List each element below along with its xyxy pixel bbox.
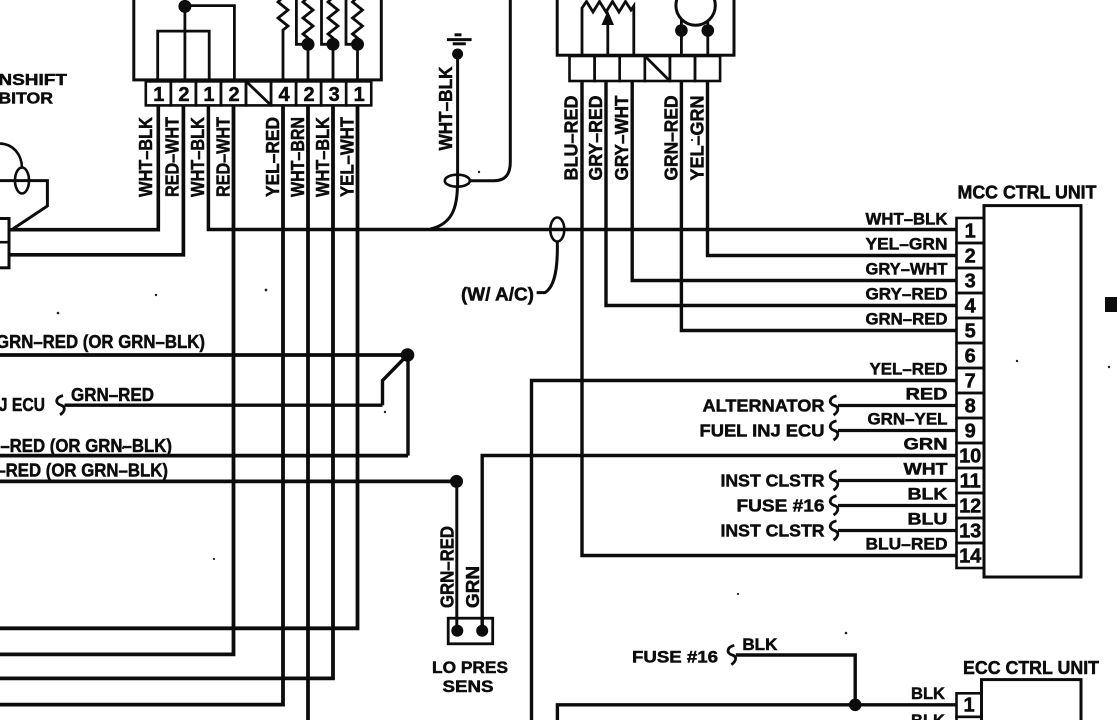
ground symbol xyxy=(447,35,472,44)
svg-text:BLK: BLK xyxy=(911,684,946,703)
svg-text:INST CLSTR: INST CLSTR xyxy=(721,471,825,491)
wire RED-WHT down-left to off-page xyxy=(0,105,234,654)
resistor R1 xyxy=(278,0,288,81)
svg-text:FUSE #16: FUSE #16 xyxy=(632,648,718,667)
MCC box xyxy=(984,206,1081,577)
svg-text:GRY–RED: GRY–RED xyxy=(586,96,606,181)
svg-text:INHIBITOR: INHIBITOR xyxy=(0,91,53,108)
svg-text:INST CLSTR: INST CLSTR xyxy=(721,521,825,541)
wire ground down xyxy=(456,54,459,186)
scan noise specks xyxy=(57,139,1111,634)
svg-text:GRN–RED: GRN–RED xyxy=(438,526,458,608)
page marker square xyxy=(1105,297,1117,312)
svg-text:3: 3 xyxy=(329,84,340,106)
svg-text:2: 2 xyxy=(965,245,976,267)
svg-text:2: 2 xyxy=(304,84,315,106)
svg-text:GRN: GRN xyxy=(463,566,483,608)
wire BLK to pin 12 xyxy=(838,504,957,507)
svg-text:2: 2 xyxy=(178,84,189,106)
svg-text:GRN–RED: GRN–RED xyxy=(661,96,681,181)
break symbol FUSE 16 xyxy=(830,496,838,515)
potentiometer wiper arrow xyxy=(602,11,615,26)
MCC pin boxes xyxy=(957,218,985,568)
svg-text:11: 11 xyxy=(960,470,981,492)
terminal dot left xyxy=(675,24,688,37)
keying diagonal in J1 cell 5 xyxy=(247,82,270,105)
wire from left edge through oval, down, diagonal into box xyxy=(0,181,47,229)
svg-text:WHT–BRN: WHT–BRN xyxy=(288,117,308,197)
wire GRN-RED (OR GRN-BLK) 3 xyxy=(0,454,408,458)
wire GRN-RED to MCC pin 5 xyxy=(681,81,956,331)
break symbol FUSE 16 bottom xyxy=(728,645,736,664)
wire BLU-RED down to MCC pin 14 xyxy=(582,81,957,556)
svg-text:1: 1 xyxy=(963,695,974,717)
svg-text:GRN–RED: GRN–RED xyxy=(71,385,154,405)
svg-text:1: 1 xyxy=(354,84,365,106)
svg-text:10: 10 xyxy=(959,445,981,467)
connector oval bullet xyxy=(15,168,29,194)
svg-text:RED–WHT: RED–WHT xyxy=(163,117,183,197)
wire diagonal branch to GRN-RED xyxy=(383,358,406,406)
ground dot xyxy=(452,49,463,60)
svg-text:YEL–RED: YEL–RED xyxy=(263,117,283,197)
wire BLK from off-page bottom to ECC pin 1 xyxy=(557,705,956,720)
connector J2 cells xyxy=(570,56,721,81)
resistor R2 xyxy=(303,0,313,81)
svg-text:12: 12 xyxy=(959,495,981,517)
svg-text:MCC CTRL UNIT: MCC CTRL UNIT xyxy=(958,183,1097,203)
svg-text:FUEL INJ ECU: FUEL INJ ECU xyxy=(700,421,825,441)
node junction dot R3 xyxy=(327,38,340,51)
node A junction dot inside U-left xyxy=(178,0,191,13)
svg-text:GRY–WHT: GRY–WHT xyxy=(866,260,949,279)
svg-text:GRN–RED: GRN–RED xyxy=(866,310,948,329)
svg-text:3: 3 xyxy=(965,270,976,292)
svg-text:14: 14 xyxy=(959,545,982,567)
wires terminals to connector xyxy=(681,31,707,57)
svg-text:BLK: BLK xyxy=(742,635,778,654)
svg-text:BLU–RED: BLU–RED xyxy=(866,535,948,554)
wire RED to pin 8 xyxy=(838,404,957,407)
svg-text:WHT–BLK: WHT–BLK xyxy=(866,210,949,229)
keying diagonal in J2 cell 4 xyxy=(646,57,670,80)
node junction dot at LO PRES branch xyxy=(450,475,463,488)
svg-text:YEL–GRN: YEL–GRN xyxy=(866,235,948,254)
terminal dot right xyxy=(476,625,488,637)
svg-text:1: 1 xyxy=(203,84,214,106)
component box U-left xyxy=(134,0,381,80)
svg-text:GRN–RED (OR GRN–BLK): GRN–RED (OR GRN–BLK) xyxy=(0,332,205,352)
svg-text:GRN–YEL: GRN–YEL xyxy=(868,410,948,429)
wire staple linking pin 1 and pin 1 xyxy=(158,31,210,81)
wire GRY-RED to MCC pin 4 xyxy=(606,81,957,306)
wire GRN sensor to MCC pin 10 xyxy=(482,456,956,631)
wire vertical from junction down xyxy=(406,355,409,456)
node junction dot R2 xyxy=(302,38,315,51)
wire BLU to pin 13 xyxy=(838,529,957,532)
svg-text:8: 8 xyxy=(965,395,976,417)
svg-text:LO PRES: LO PRES xyxy=(432,659,508,677)
wire YEL-WHT down-left to off-page xyxy=(0,105,358,628)
svg-text:4: 4 xyxy=(279,84,291,106)
terminal dot left xyxy=(451,625,463,637)
svg-text:WHT–BLK: WHT–BLK xyxy=(136,117,156,197)
node junction dot xyxy=(849,699,862,712)
connector oval on ground wire xyxy=(445,175,470,187)
node junction dot xyxy=(401,348,415,362)
wire BLK from FUSE 16 xyxy=(736,655,855,705)
svg-text:7: 7 xyxy=(965,370,976,392)
svg-text:GRY–RED: GRY–RED xyxy=(866,285,948,304)
svg-text:ECC CTRL UNIT: ECC CTRL UNIT xyxy=(963,658,1099,678)
wire W/AC branch curl xyxy=(537,242,558,293)
svg-text:WHT–BLK: WHT–BLK xyxy=(436,67,456,151)
ECC pin 1 box xyxy=(957,693,982,717)
wire WHT-BLK pin1 to left component xyxy=(9,105,158,229)
wire RED-WHT pin2 to left component xyxy=(9,105,183,254)
break symbol FUEL INJ ECU xyxy=(57,396,65,415)
MCC pin numbers xyxy=(959,220,982,567)
svg-text:BLU: BLU xyxy=(908,510,948,529)
ECC pin 2 box (cut) xyxy=(957,717,982,720)
wire WHT-BRN down to off-page bottom xyxy=(306,105,310,720)
break symbol INST CLSTR xyxy=(830,471,838,490)
wire node A right then down to pin 2 (4th cell) xyxy=(185,6,235,81)
wire GRN-RED down to sensor xyxy=(455,481,458,630)
svg-text:BLU–RED: BLU–RED xyxy=(562,96,582,181)
svg-text:GRN–RED (OR GRN–BLK): GRN–RED (OR GRN–BLK) xyxy=(0,436,172,456)
break symbol ALTERNATOR xyxy=(830,396,838,415)
svg-text:FUSE #16: FUSE #16 xyxy=(737,496,825,516)
wire name labels at MCC xyxy=(866,210,949,554)
svg-text:1: 1 xyxy=(153,84,164,106)
svg-text:9: 9 xyxy=(965,420,976,442)
wire node A down to pin 2 xyxy=(183,5,186,81)
svg-text:(W/ A/C): (W/ A/C) xyxy=(461,284,534,305)
break symbol FUEL INJ ECU xyxy=(830,421,838,440)
connector oval on long wire xyxy=(550,218,564,242)
svg-text:RED: RED xyxy=(906,385,948,404)
svg-text:BLK: BLK xyxy=(908,485,949,504)
component box U-center xyxy=(557,0,734,55)
sensor terminal stubs xyxy=(681,20,707,31)
svg-text:WHT: WHT xyxy=(904,460,949,479)
resistor R4 xyxy=(353,0,363,81)
sensor circle xyxy=(676,0,715,25)
wire curve joining long WHT-BLK wire xyxy=(431,187,458,229)
wire YEL-RED down-left to off-page xyxy=(0,105,283,704)
wire GRN-RED from FUEL INJ ECU xyxy=(65,404,383,407)
wire WHT-BLK down-left to off-page xyxy=(0,105,333,678)
connector J1 cells xyxy=(146,81,371,105)
svg-text:GRN: GRN xyxy=(904,435,948,454)
svg-text:GRY–WHT: GRY–WHT xyxy=(612,96,632,181)
svg-text:4: 4 xyxy=(965,295,977,317)
wire arc from left edge to connector oval xyxy=(0,144,22,168)
svg-text:ALTERNATOR: ALTERNATOR xyxy=(703,396,825,416)
svg-text:YEL–WHT: YEL–WHT xyxy=(338,117,358,197)
wire bypass of R2 xyxy=(296,0,308,44)
wire GRN-RED (OR GRN-BLK) 4 to LO PRES SENS xyxy=(0,479,457,483)
svg-text:RED–WHT: RED–WHT xyxy=(214,117,234,197)
ECC box xyxy=(982,680,1082,720)
svg-text:BLK: BLK xyxy=(911,711,946,720)
wire GRY-WHT to MCC pin 3 xyxy=(632,81,956,281)
wire WHT-BLK long wire to MCC pin 1 xyxy=(208,105,956,229)
sensor box LO PRES SENS xyxy=(448,618,493,644)
divider of left box xyxy=(0,241,9,244)
svg-text:SENS: SENS xyxy=(443,678,494,696)
wire wiper down xyxy=(606,24,609,56)
svg-text:YEL–GRN: YEL–GRN xyxy=(688,96,708,181)
resistor R3 xyxy=(328,0,338,81)
svg-text:5: 5 xyxy=(965,320,976,342)
svg-text:FUEL INJ ECU: FUEL INJ ECU xyxy=(0,395,45,415)
wire GRN-YEL to pin 9 xyxy=(838,429,957,432)
wire WHT to pin 11 xyxy=(838,479,957,482)
wire YEL-GRN to MCC pin 2 xyxy=(708,81,957,256)
wire bypass of R4 xyxy=(346,0,358,44)
wire bypass of R3 xyxy=(322,0,334,44)
svg-text:13: 13 xyxy=(959,520,981,542)
svg-text:1: 1 xyxy=(965,220,976,242)
wire from top edge curving to oval xyxy=(470,0,511,181)
svg-text:WHT–BLK: WHT–BLK xyxy=(188,117,208,197)
svg-text:WHT–BLK: WHT–BLK xyxy=(313,117,333,197)
svg-text:GRN–RED (OR GRN–BLK): GRN–RED (OR GRN–BLK) xyxy=(0,461,168,481)
component names feeding MCC xyxy=(700,396,825,541)
potentiometer resistor xyxy=(582,2,634,57)
break symbol INST CLSTR 2 xyxy=(830,521,838,540)
wire YEL-RED MCC pin 7 down off-page xyxy=(532,381,957,720)
node junction dot R4 xyxy=(351,38,364,51)
svg-text:2: 2 xyxy=(228,84,239,106)
component box (cut at left edge) xyxy=(0,219,9,268)
svg-text:6: 6 xyxy=(965,345,976,367)
svg-text:YEL–RED: YEL–RED xyxy=(870,360,948,379)
terminal dot right xyxy=(702,24,715,37)
pin numbers J1 xyxy=(153,84,365,106)
svg-text:DOWNSHIFT: DOWNSHIFT xyxy=(0,72,68,89)
wire GRN-RED (OR GRN-BLK) 1 xyxy=(0,353,408,357)
